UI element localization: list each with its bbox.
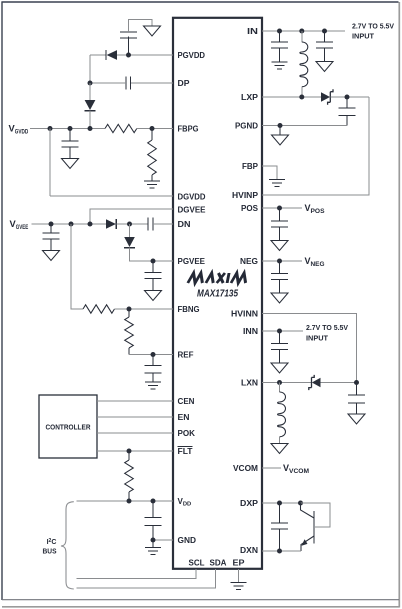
wire DXP to Q1 base loop: [301, 503, 331, 527]
diode D5 schottky on LXP: [321, 89, 333, 105]
svg-text:I2C: I2C: [47, 538, 57, 546]
ground G12 earth under FBP: [269, 180, 285, 187]
wire DXN pin line: [262, 550, 301, 552]
junction C1/PGVDD: [126, 53, 131, 58]
svg-text:INN: INN: [243, 327, 258, 336]
capacitor C14 INN bypass: [271, 331, 288, 363]
wire diode D2 to FBPG line: [89, 111, 91, 129]
junction VGVEE/FBNG branch: [69, 222, 74, 227]
junction LXP/L1: [299, 95, 304, 100]
junction boost node C11: [345, 95, 350, 100]
junction IN/C9: [277, 29, 282, 34]
svg-text:LXP: LXP: [241, 93, 259, 102]
wire R4 bottom to REF pin: [129, 354, 173, 356]
junction DXP/Q1 collector: [298, 501, 303, 506]
junction VDD/R5: [127, 499, 132, 504]
svg-text:CEN: CEN: [178, 397, 195, 406]
page frame left border: [1, 2, 3, 601]
ground G1 top inverted triangle: [144, 26, 161, 36]
ground G13 inverted triangle under C12: [271, 241, 288, 251]
wire HVINN pin to inverter node: [262, 314, 357, 383]
transistor Q1 temperature sense: [301, 503, 315, 551]
wire DGVEE pin line with corner: [90, 209, 173, 224]
capacitor C10 IN bypass 2: [316, 31, 333, 62]
junction REF/C7: [151, 352, 156, 357]
ground G2 inverted triangle under C3: [62, 159, 79, 169]
page frame top border: [2, 1, 399, 3]
ground G7 earth under GND: [145, 548, 161, 555]
wire VGVEE rail down to FBNG: [71, 224, 83, 309]
wire GND to earth ground: [152, 540, 154, 548]
svg-text:HVINP: HVINP: [232, 191, 259, 200]
svg-text:POK: POK: [178, 429, 196, 438]
junction PGND/G11: [278, 123, 283, 128]
svg-text:VCOM: VCOM: [233, 464, 258, 473]
wire diode D6 to inverter node: [321, 382, 357, 384]
page frame bottom border: [2, 606, 399, 608]
svg-text:POS: POS: [241, 204, 259, 213]
svg-text:FBPG: FBPG: [178, 125, 199, 134]
wire node A vertical PGVDD to DP: [89, 55, 91, 83]
wire controller to POK pin: [97, 432, 173, 434]
svg-text:PGVEE: PGVEE: [178, 257, 206, 266]
op-amp U1 MAX17135 IC body: [173, 18, 262, 569]
ground G5 inverted triangle under C6: [145, 291, 162, 301]
wire GND pin line: [153, 539, 173, 541]
svg-text:PGND: PGND: [235, 122, 258, 131]
wire controller to CEN pin: [97, 400, 173, 402]
junction DXN/C16: [277, 549, 282, 554]
wire diode D5 to boost node: [330, 96, 369, 98]
wire SDA pin to I2C bus: [77, 569, 216, 588]
input supply label top: [352, 22, 394, 41]
wire VDD rail: [77, 500, 174, 502]
resistor R1 on FBPG line: [105, 124, 137, 132]
wire DGVDD rail vertical: [49, 129, 51, 197]
capacitor C11 boost output: [339, 97, 356, 126]
svg-text:2.7V TO 5.5V: 2.7V TO 5.5V: [352, 22, 394, 31]
svg-text:CONTROLLER: CONTROLLER: [46, 423, 92, 432]
wire LXP pin to diode D5: [262, 96, 321, 98]
junction DXP/C16: [277, 501, 282, 506]
resistor R4 FBNG to REF: [125, 309, 134, 355]
svg-text:2.7V TO 5.5V: 2.7V TO 5.5V: [306, 323, 348, 332]
junction INN/C14: [277, 329, 282, 334]
svg-text:BUS: BUS: [43, 549, 57, 556]
junction VGVEE/DGVEE: [88, 222, 93, 227]
resistor R2 FBPG to ground: [148, 129, 157, 182]
svg-text:DN: DN: [178, 220, 191, 229]
ground G8 earth under EP: [231, 583, 247, 590]
svg-text:HVINN: HVINN: [231, 310, 258, 319]
capacitor C6 on PGVEE: [145, 261, 162, 291]
wire C1 top to ground stub: [129, 20, 153, 33]
MAXIM logo: [188, 273, 248, 283]
svg-text:GND: GND: [178, 536, 197, 545]
inductor L2 LXN to ground: [278, 383, 286, 444]
ground G3 earth under R2: [144, 181, 160, 188]
junction VGVDD/C3 branch: [68, 126, 73, 131]
wire capacitor C5 to DN pin: [153, 223, 173, 225]
junction FBNG/R4: [127, 307, 132, 312]
resistor R3 on FBNG line: [83, 305, 114, 313]
svg-text:EN: EN: [178, 413, 190, 422]
svg-text:FLT: FLT: [178, 447, 193, 456]
wire controller to FLT pin: [97, 450, 173, 452]
ground G10 inverted triangle under C10: [316, 62, 333, 72]
svg-text:DXN: DXN: [240, 546, 258, 555]
wire resistor R1 to FBPG pin: [137, 128, 173, 130]
svg-text:EP: EP: [233, 559, 246, 568]
junction NEG/C13: [277, 259, 282, 264]
wire diode D1 cathode to node A: [90, 54, 106, 56]
wire PGVDD pin to diode D1: [117, 54, 173, 56]
I2C BUS label: [43, 538, 57, 556]
junction VGVEE/C4: [49, 222, 54, 227]
svg-text:REF: REF: [178, 351, 194, 360]
wire PGND pin line: [262, 125, 347, 127]
wire DP pin to capacitor C2: [131, 82, 174, 84]
figure bottom rule: [2, 599, 399, 601]
svg-text:FBNG: FBNG: [178, 305, 200, 314]
capacitor C2 on DP line: [126, 77, 131, 90]
wire DGVDD pin line: [50, 195, 173, 197]
capacitor C9 IN bypass: [271, 31, 288, 62]
diode D1 on PGVDD line: [106, 50, 117, 60]
wire FBP pin to ground: [262, 166, 277, 180]
junction FBPG/R2 branch: [150, 126, 155, 131]
junction POS/C12: [277, 206, 282, 211]
junction node B on DN line: [127, 222, 132, 227]
wire diode D4 to PGVEE line: [130, 248, 174, 261]
wire capacitor C2 to node A: [90, 82, 126, 84]
svg-text:DGVDD: DGVDD: [178, 193, 206, 202]
svg-text:FBP: FBP: [242, 162, 259, 171]
ground G15 inverted triangle under C14: [271, 363, 288, 373]
resistor R5 FLT pullup to VDD: [125, 451, 134, 501]
page frame right border: [398, 2, 400, 608]
ground G14 inverted triangle under C13: [271, 293, 288, 303]
svg-text:LXN: LXN: [241, 379, 258, 388]
wire SCL pin to I2C bus: [77, 569, 197, 579]
svg-text:SDA: SDA: [210, 559, 227, 568]
svg-text:IN: IN: [247, 27, 258, 36]
junction VDD/C8: [151, 499, 156, 504]
wire INN pin line: [262, 330, 303, 332]
wire boost node to HVINP: [262, 97, 369, 195]
capacitor C5 on DN line: [148, 218, 153, 231]
svg-text:INPUT: INPUT: [352, 32, 375, 41]
junction IN/C10: [322, 29, 327, 34]
svg-text:DP: DP: [178, 79, 191, 88]
inductor L1 IN to LXP: [300, 31, 308, 97]
ground G6 earth under C7: [145, 382, 161, 389]
wire controller to EN pin: [97, 416, 173, 418]
capacitor C4 on VGVEE rail: [43, 224, 60, 251]
capacitor C12 on POS: [271, 208, 288, 241]
svg-text:INPUT: INPUT: [306, 334, 329, 343]
capacitor C8 VDD bypass: [145, 501, 162, 540]
ground G11 inverted triangle under PGND: [272, 126, 289, 146]
svg-text:MAX17135: MAX17135: [197, 289, 238, 300]
input supply label INN: [306, 323, 348, 343]
junction GND/C8: [151, 538, 156, 543]
pin label FLT with overbar: [178, 447, 193, 457]
wire node A down to diode D2: [89, 83, 91, 100]
wire IN pin line: [262, 30, 345, 32]
diode D6 schottky on LXN: [309, 375, 321, 390]
wire DXP pin line: [262, 502, 301, 504]
wire resistor R3 to FBNG pin: [115, 308, 174, 310]
wire POS pin line: [262, 207, 302, 209]
capacitor C13 on NEG: [271, 261, 288, 293]
capacitor C15 inverter output: [348, 383, 365, 415]
svg-text:DXP: DXP: [240, 499, 259, 508]
wire NEG pin line: [262, 260, 302, 262]
junction LXN/L2: [277, 380, 282, 385]
diode D3 on DN line: [106, 219, 116, 229]
junction IN/L1: [299, 29, 304, 34]
I2C bus brace: [61, 502, 74, 589]
svg-text:PGVDD: PGVDD: [178, 51, 206, 60]
wire EP pin to ground: [238, 569, 240, 583]
capacitor C7 on REF: [145, 355, 162, 383]
wire VGVDD to resistor R1: [30, 128, 105, 130]
junction VGVDD/DGVDD branch: [48, 126, 53, 131]
junction PGVEE/C6: [151, 259, 156, 264]
diode D2 vertical to FBPG node: [84, 100, 95, 111]
capacitor C1 on PGVDD node: [120, 32, 137, 55]
wire diode D3 to node B: [116, 223, 148, 225]
junction VGVDD/D2 branch: [88, 126, 93, 131]
ground G17 inverted triangle under L2: [271, 444, 288, 454]
capacitor C3 on VGVDD rail: [62, 129, 79, 159]
wire LXN pin to diode D6: [262, 382, 312, 384]
controller box: [39, 395, 97, 458]
wire VGVEE to diode D3 on DN line: [32, 223, 107, 225]
junction inverter node: [354, 380, 359, 385]
junction FLT/R5: [127, 449, 132, 454]
ground G4 inverted triangle under C4: [43, 251, 60, 261]
diode D4 vertical to PGVEE: [124, 237, 135, 248]
junction node A at DP: [88, 81, 93, 86]
svg-text:SCL: SCL: [189, 559, 205, 568]
ground G16 inverted triangle under C15: [348, 414, 365, 424]
svg-text:DGVEE: DGVEE: [178, 206, 207, 215]
svg-text:NEG: NEG: [240, 257, 258, 266]
wire VCOM pin line: [262, 467, 281, 469]
capacitor C16 DXP to DXN: [271, 503, 288, 551]
ground G9 earth under C9: [272, 62, 288, 69]
wire node B down to diode D4: [129, 224, 131, 237]
